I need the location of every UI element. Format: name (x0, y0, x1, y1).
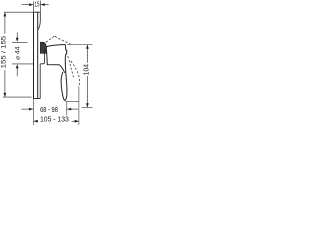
dim 155/155 vertical line with arrows (4, 12, 7, 97)
dim 68-98 left arrow (21, 108, 33, 111)
dim 15 right arrow (41, 3, 49, 6)
dim 68-98 right arrow (67, 108, 78, 111)
svg-text:68 - 98: 68 - 98 (40, 105, 58, 114)
handle hub on plate (dark blob upper part) (40, 42, 46, 53)
wire: right extension line of dim 105-133 (78, 86, 80, 125)
plate front face inner line (37, 13, 39, 99)
wire: top extension line of dim 104 (67, 44, 93, 46)
dashed raised-handle top edge (43, 36, 55, 45)
wire: right extension line of dim 68-98 (66, 102, 68, 116)
svg-text:155 / 155: 155 / 155 (1, 35, 8, 68)
dim 105-133 line (34, 120, 79, 123)
wire: bottom extension line of dim 104 (82, 106, 93, 108)
handle hub lower outline (40, 50, 44, 64)
dim 104 vertical line with arrows (86, 45, 89, 108)
wire: right extension line of dim 15 (plate front, top) (39, 1, 41, 13)
plate front lip top curve (38, 12, 40, 29)
blade left edge (61, 72, 65, 101)
dashed raised blade outer edge (71, 61, 80, 85)
wire: lower extension line of dia44 (12, 63, 33, 65)
wire: top extension line of dim 155/155 (4, 11, 33, 13)
handle lever left edge and grip bottom (46, 47, 59, 65)
handle top edge (46, 45, 65, 47)
grip bottom inner contour (59, 65, 64, 73)
svg-text:105 - 133: 105 - 133 (40, 115, 69, 124)
wire: left extension line of dim 15 (plate back, top) (33, 2, 35, 13)
plate back (wall) line (33, 12, 35, 98)
dashed raised-handle end face (55, 36, 71, 44)
svg-text:15: 15 (34, 0, 39, 8)
wire: extension from blade tip to right (65, 101, 79, 103)
dim 15 left arrow (22, 3, 34, 6)
dashed raised blade inner edge (66, 53, 73, 78)
handle right edge with step, down to blade tip (65, 45, 67, 101)
plate top edge (34, 11, 41, 13)
wire: upper extension line of dia44 (12, 41, 28, 43)
svg-text:⌀ 44: ⌀ 44 (14, 46, 21, 60)
svg-text:104: 104 (83, 64, 90, 75)
dim dia44 lower arrow and stem (16, 64, 19, 76)
plate bottom edge (34, 98, 41, 100)
dim dia44 upper arrow and stem (16, 33, 19, 43)
wire: left extension line under wall (32, 99, 34, 126)
wire: bottom extension line of dim 155/155 (3, 96, 32, 98)
plate front lip bottom (39, 64, 41, 99)
